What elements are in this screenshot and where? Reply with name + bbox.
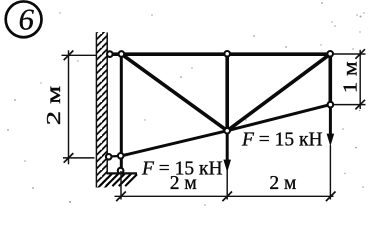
wall hatching bbox=[96, 32, 107, 188]
dimension 2m left: extension line bottom bbox=[63, 157, 95, 159]
svg-text:1 м: 1 м bbox=[341, 61, 362, 93]
dimension 2m left: tick top bbox=[64, 51, 74, 61]
dimension 2m left: dimension line bbox=[68, 50, 70, 164]
member: right vertical D-E bbox=[328, 54, 332, 105]
wall left edge bbox=[95, 33, 97, 188]
ground line bbox=[107, 172, 138, 174]
dimension 2m left: extension line top bbox=[62, 54, 97, 56]
dimension 1m right: tick top bbox=[355, 49, 365, 59]
ground hatching under roller bbox=[100, 174, 137, 187]
dimension 1m right: extension line bottom bbox=[334, 104, 366, 106]
problem number badge circle bbox=[6, 1, 42, 37]
dimension 2m left: tick bottom bbox=[64, 153, 74, 163]
svg-text:6: 6 bbox=[19, 3, 35, 37]
wall right edge bbox=[106, 33, 108, 174]
node H (wall bottom pin) bbox=[106, 154, 112, 160]
member: left vertical B-G (continues to roller pin) bbox=[120, 54, 123, 171]
dimension 1m right: dimension line bbox=[359, 50, 361, 109]
node G (support node) bbox=[118, 153, 124, 159]
bottom dimension: tick left bbox=[116, 192, 126, 202]
svg-text:2 м: 2 м bbox=[44, 86, 65, 126]
node B (top-left) bbox=[119, 51, 125, 57]
bottom dimension: tick right bbox=[326, 192, 336, 202]
member: diagonal F-D bbox=[227, 54, 330, 131]
force arrow at node E bbox=[327, 105, 335, 146]
bottom dimension line bbox=[115, 195, 334, 197]
support link H-G bbox=[108, 155, 122, 158]
force arrow at node F bbox=[223, 131, 231, 172]
node I (roller pin) bbox=[118, 168, 124, 174]
svg-text:2 м: 2 м bbox=[269, 173, 296, 194]
node C (top-middle) bbox=[224, 51, 230, 57]
member: bottom chord G-F bbox=[121, 131, 228, 156]
member: top chord A-B-C-D bbox=[107, 52, 333, 56]
svg-text:F = 15 кН: F = 15 кН bbox=[241, 130, 323, 151]
svg-text:F = 15 кН: F = 15 кН bbox=[141, 159, 223, 180]
node A (wall top pin) bbox=[107, 51, 113, 57]
bottom dimension: extension line at x=121 bbox=[120, 171, 122, 200]
member: bottom chord F-E bbox=[227, 105, 330, 131]
bottom dimension: extension line at x=227 bbox=[226, 170, 228, 200]
node D (top-right) bbox=[327, 51, 333, 57]
member: middle vertical C-F bbox=[225, 54, 229, 131]
node F (bottom middle) bbox=[224, 128, 230, 134]
dimension 1m right: extension line top bbox=[334, 53, 366, 55]
bottom dimension: tick middle bbox=[222, 192, 232, 202]
bottom dimension: extension line at x=330 bbox=[329, 145, 331, 199]
node E (right lower) bbox=[328, 102, 334, 108]
dimension 1m right: tick bottom bbox=[355, 100, 365, 110]
member: diagonal B-F bbox=[121, 54, 227, 131]
